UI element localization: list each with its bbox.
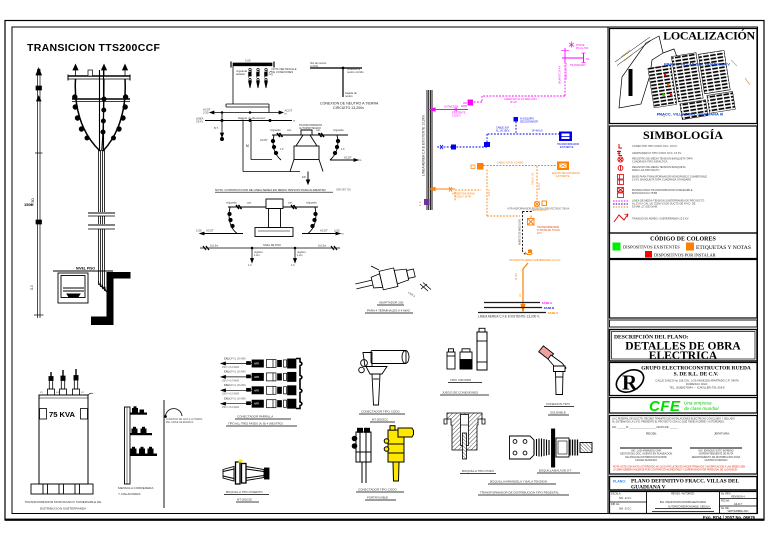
conexion tipo soldable xyxy=(539,346,566,395)
pole cable down-riser bundle xyxy=(88,150,115,291)
svg-text:CFE: CFE xyxy=(649,398,681,415)
codigo orange xyxy=(686,243,694,251)
pole structure: top crossarm xyxy=(68,75,130,81)
cluster2 left insulator chain xyxy=(271,135,281,160)
retenida marker (purple) xyxy=(424,199,430,205)
svg-text:ELECTRICA: ELECTRICA xyxy=(649,350,718,362)
svg-text:BOQUILLA TIPO INSERTO: BOQUILLA TIPO INSERTO xyxy=(226,490,263,494)
simbologia sym7 linea MT subterranea xyxy=(613,201,629,207)
svg-text:CÓDIGO DE COLORES: CÓDIGO DE COLORES xyxy=(650,235,716,243)
svg-text:B.T.: B.T. xyxy=(214,126,219,130)
svg-text:1.0: 1.0 xyxy=(291,263,295,267)
svg-text:neutro: neutro xyxy=(345,94,353,98)
mensula shelf 3 with insulators xyxy=(130,447,157,456)
neutral-to-ground mini diagram xyxy=(310,67,362,97)
svg-text:1500: 1500 xyxy=(24,202,34,207)
svg-text:ARR: ARR xyxy=(254,389,259,392)
svg-text:SIN - E S C: SIN - E S C xyxy=(619,508,632,511)
orange terminal block right xyxy=(557,162,569,171)
svg-text:A TRANSFORMADOR PEDESTAL PROYE: A TRANSFORMADOR PEDESTAL PROYECTADO 75KV… xyxy=(507,208,570,211)
svg-text:ADAPTADOR 200: ADAPTADOR 200 xyxy=(379,301,404,305)
svg-text:TRANSICION: TRANSICION xyxy=(570,64,586,67)
svg-text:AUTORIZO/RESPONSABLE:: AUTORIZO/RESPONSABLE: xyxy=(668,506,700,509)
svg-text:SEPTIEMBRE 2011: SEPTIEMBRE 2011 xyxy=(727,510,749,513)
svg-text:bajante media tension: bajante media tension xyxy=(238,116,266,120)
localizacion colored dots xyxy=(663,74,673,96)
svg-text:CABLE XLP AL 1/0 AWG: CABLE XLP AL 1/0 AWG xyxy=(497,162,524,165)
svg-text:JEFATURA:: JEFATURA: xyxy=(714,432,730,436)
title block divider xyxy=(607,27,609,514)
svg-text:R: R xyxy=(622,371,638,395)
blue tap square xyxy=(514,117,519,122)
simbologia sym8 transicion xyxy=(614,214,628,222)
grupo electroconstructor box xyxy=(610,363,758,396)
magenta transition connector xyxy=(461,100,473,106)
svg-text:CABLE XLP 1/0: CABLE XLP 1/0 xyxy=(565,62,568,80)
svg-text:Exp. RO4 / 2007 No. 06676: Exp. RO4 / 2007 No. 06676 xyxy=(703,515,756,520)
orange feeder into overhead line xyxy=(430,187,455,192)
title table xyxy=(610,492,758,514)
svg-text:TIPO CIM-6000: TIPO CIM-6000 xyxy=(450,378,471,382)
cluster1 fuse cutout B xyxy=(257,68,260,88)
svg-text:13200 V: 13200 V xyxy=(452,115,461,118)
svg-text:cort.: cort. xyxy=(247,202,252,205)
boquilla tipo pozo xyxy=(444,413,485,459)
svg-text:JUEGO DE CONEXIONES: JUEGO DE CONEXIONES xyxy=(442,391,478,395)
simbologia box xyxy=(610,126,758,233)
guide wire detail xyxy=(164,400,182,508)
svg-text:ACOMETIDA: ACOMETIDA xyxy=(444,106,459,109)
svg-text:LA OBRA DEBERA HACERSE POR CON: LA OBRA DEBERA HACERSE POR CONTRATISTA A… xyxy=(613,469,738,472)
svg-text:TIPO ALL TRES FASES (A, B) 4 (: TIPO ALL TRES FASES (A, B) 4 (NEUTRO) xyxy=(228,422,283,426)
blue transformer block xyxy=(559,132,572,142)
svg-text:LINEA AEREA C.F.E EXISTENTE 1: LINEA AEREA C.F.E EXISTENTE 13,200 V. xyxy=(478,315,540,319)
localizacion street marks tan xyxy=(621,50,750,117)
svg-text:DISPOSITIVOS POR INSTALAR: DISPOSITIVOS POR INSTALAR xyxy=(654,253,716,258)
svg-text:CONECTADOR TIPO CODO: CONECTADOR TIPO CODO xyxy=(361,410,400,414)
orange registro symbol xyxy=(534,201,546,207)
left insulator string with jumper cable xyxy=(73,79,100,151)
svg-text:CABLE 1/0: CABLE 1/0 xyxy=(532,173,535,185)
cluster2 primary bus wire xyxy=(272,133,348,137)
svg-text:de clase mundial: de clase mundial xyxy=(684,406,719,411)
svg-text:ARR: ARR xyxy=(254,363,259,366)
simbologia sym4 registro proyecto xyxy=(618,166,623,171)
cluster1 bajante line xyxy=(205,120,292,122)
svg-text:APARTARRAYO TIPO CODO OCC. 15: APARTARRAYO TIPO CODO OCC. 15 KV. xyxy=(632,151,682,155)
orange transformer-to-install symbol xyxy=(528,216,535,226)
svg-text:ING. OMAR ROCHA RODRIGUEZ/CARG: ING. OMAR ROCHA RODRIGUEZ/CARGO xyxy=(660,501,706,504)
right insulator string with jumper cable xyxy=(103,79,128,151)
svg-text:PARA LAS PROYECTO: PARA LAS PROYECTO xyxy=(632,168,660,172)
svg-text:neutro corrido: neutro corrido xyxy=(347,70,364,74)
svg-text:PLANO DEFINITIVO FRACC. VILLAS: PLANO DEFINITIVO FRACC. VILLAS DEL xyxy=(631,479,739,485)
svg-text:SIN - E S C: SIN - E S C xyxy=(619,497,632,500)
svg-text:NOTA: ESTE CONJUNTO AUTORIZADO: NOTA: ESTE CONJUNTO AUTORIZADO NO LE DA … xyxy=(613,466,746,469)
transformer 75 KVA tank xyxy=(39,393,93,484)
simbologia sym2 apartarrayo xyxy=(617,151,622,156)
svg-text:CONECTADOR PARRILLA: CONECTADOR PARRILLA xyxy=(237,415,273,419)
magenta riser drop (dashed) xyxy=(473,62,565,102)
simbologia sym3 registro MT cuadrada xyxy=(618,157,623,162)
svg-text:CIUDAD DURANGO: CIUDAD DURANGO xyxy=(635,459,657,462)
orange riser down to overhead tap xyxy=(521,263,528,311)
svg-text:CONEXION TIPO: CONEXION TIPO xyxy=(546,402,570,406)
cluster3 ground dimension line xyxy=(200,246,340,250)
svg-text:MENSULA CORREDERA: MENSULA CORREDERA xyxy=(118,486,154,490)
mensula shelf 2 with insulators xyxy=(130,427,152,435)
svg-text:53 MM. (2") DE DIAM.: 53 MM. (2") DE DIAM. xyxy=(632,205,658,209)
codigo green xyxy=(613,243,621,251)
svg-text:DURANGO, DGO.: DURANGO, DGO. xyxy=(686,382,708,386)
svg-text:2.50: 2.50 xyxy=(334,229,340,233)
svg-text:CALLE JUNCO No 108 COL. LOS A: CALLE JUNCO No 108 COL. LOS ANGELES APAR… xyxy=(655,379,739,383)
svg-text:CENTRO DURANGO: CENTRO DURANGO xyxy=(705,459,728,462)
svg-text:TRANSICION TTS200CCF: TRANSICION TTS200CCF xyxy=(27,42,160,54)
orange lateral top (dashed) xyxy=(455,166,557,217)
ground level line xyxy=(53,270,113,272)
svg-text:m/guarda: m/guarda xyxy=(226,202,237,205)
plano title box xyxy=(610,477,758,491)
svg-text:MT-200/SCC: MT-200/SCC xyxy=(372,418,388,422)
svg-text:2.50: 2.50 xyxy=(203,111,209,115)
svg-text:CONEXION DE NEUTRO A TIERRA: CONEXION DE NEUTRO A TIERRA xyxy=(320,102,379,106)
empty notes box xyxy=(610,260,758,319)
svg-text:corrido: corrido xyxy=(310,64,319,68)
conectador tipo codo MT-200 xyxy=(359,351,409,406)
svg-text:BOQUILLA/ARANDELA Y BALA TENSI: BOQUILLA/ARANDELA Y BALA TENSION xyxy=(490,480,547,484)
svg-text:PC-12-700: PC-12-700 xyxy=(576,47,589,50)
svg-text:DESCRIPCIÓN DEL PLANO:: DESCRIPCIÓN DEL PLANO: xyxy=(614,333,689,341)
cluster1 ground drop xyxy=(220,113,223,141)
certification box xyxy=(610,416,758,475)
svg-text:m/guarda: m/guarda xyxy=(270,129,281,132)
svg-text:m: m xyxy=(293,120,295,123)
svg-text:FASE A: FASE A xyxy=(542,301,552,305)
cluster3: pedestal transformer schematic xyxy=(228,205,318,209)
svg-text:CEDULA:: CEDULA: xyxy=(700,506,711,509)
svg-text:CUADRADA TIPO ASFALTICA: CUADRADA TIPO ASFALTICA xyxy=(632,159,668,163)
cluster1 fuse cutout A xyxy=(249,68,252,88)
svg-text:EXISTENTE: EXISTENTE xyxy=(556,175,570,178)
svg-text:ACOT: ACOT xyxy=(320,229,328,233)
svg-text:S. DE R.L. DE C.V.: S. DE R.L. DE C.V. xyxy=(674,372,719,378)
R logo xyxy=(613,365,648,396)
center insulator string with jumper cable xyxy=(101,79,106,151)
codigo red xyxy=(645,251,652,258)
svg-text:2x2.5m: 2x2.5m xyxy=(210,245,218,248)
svg-text:XLP AL 1/0 AWG: XLP AL 1/0 AWG xyxy=(229,371,246,374)
svg-text:LINEA AEREA C.F.E EXISTENTE 13: LINEA AEREA C.F.E EXISTENTE 13,2KV. xyxy=(422,114,426,176)
descripcion box xyxy=(610,330,758,362)
svg-text:LOCALIZACIÓN: LOCALIZACIÓN xyxy=(663,29,755,43)
svg-text:AL SISTEMA DE LA C.F.E. PRESEN: AL SISTEMA DE LA C.F.E. PRESENTE EL PROY… xyxy=(612,421,725,424)
svg-text:B.M.T.: B.M.T. xyxy=(488,189,491,196)
cluster1 bracket frame xyxy=(226,66,269,113)
svg-text:TRANSFORMADOR MONOFASICO SUMER: TRANSFORMADOR MONOFASICO SUMERGIBLE DE xyxy=(25,500,102,504)
blue connector blobs xyxy=(440,142,490,150)
svg-text:GUADIANA V: GUADIANA V xyxy=(631,485,666,491)
svg-text:13 KV. BANQUETA TAPA CUADRADA: 13 KV. BANQUETA TAPA CUADRADA STANDARD xyxy=(632,177,691,181)
svg-text:ACOT: ACOT xyxy=(260,138,268,142)
svg-text:ACOT: ACOT xyxy=(344,156,352,160)
svg-text:FRACC. VILLAS DEL GUADIANA V: FRACC. VILLAS DEL GUADIANA V xyxy=(664,62,730,67)
mensula corredera channel xyxy=(125,407,131,484)
svg-text:PARA 4 TERMINALES A 4 AWG: PARA 4 TERMINALES A 4 AWG xyxy=(367,309,411,313)
cluster3 depth drops xyxy=(251,248,297,263)
svg-text:ETIQUETAS Y NOTAS: ETIQUETAS Y NOTAS xyxy=(696,245,751,251)
overhead line bundle (LINEA AEREA CFE 13,2KV) xyxy=(427,90,432,210)
magenta feeder into overhead line xyxy=(430,108,468,112)
svg-text:BOQUILLA/BALA DE 8-T: BOQUILLA/BALA DE 8-T xyxy=(539,469,572,473)
transformer bushings xyxy=(48,369,80,395)
svg-text:JULIO 7: JULIO 7 xyxy=(734,503,743,506)
svg-text:aislador: aislador xyxy=(236,72,245,76)
svg-text:15KV 4 1/0 AWG: 15KV 4 1/0 AWG xyxy=(222,406,239,409)
svg-text:No. REV:: No. REV: xyxy=(721,493,731,496)
svg-text:DIA: ______ M: ______________: DIA: ______ M: ____________________ FECH… xyxy=(612,426,678,429)
svg-text:DISTRIBUCION SUBTERRANEA: DISTRIBUCION SUBTERRANEA xyxy=(40,507,87,511)
CFE box xyxy=(610,398,758,414)
svg-text:NIVEL DE PISO: NIVEL DE PISO xyxy=(263,244,281,247)
svg-text:CIRCUITO 13,200v: CIRCUITO 13,200v xyxy=(333,106,364,110)
svg-text:Y AISLADORES: Y AISLADORES xyxy=(118,492,140,496)
svg-text:1 F: 1 F xyxy=(341,147,345,151)
svg-text:MURETE DE MEDICION: MURETE DE MEDICION xyxy=(520,219,522,245)
cluster1 fuse cutout C xyxy=(265,68,268,88)
parrilla row 2 xyxy=(221,371,296,383)
svg-text:CONECTOR TIPO CODO OCC. 15 KV.: CONECTOR TIPO CODO OCC. 15 KV. xyxy=(632,144,678,148)
cluster2: pole transformer bank schematic xyxy=(240,120,300,172)
tipo CIM-6000 connection set xyxy=(447,328,487,370)
svg-text:m/guarda: m/guarda xyxy=(306,202,317,205)
svg-text:13200 V 3F-4H: 13200 V 3F-4H xyxy=(455,196,471,199)
svg-text:VER DET. EN: VER DET. EN xyxy=(336,189,351,192)
cluster2 right insulator chain xyxy=(330,135,358,161)
mensula shelf 1 with insulator xyxy=(130,406,147,414)
cluster1 acot line 1 xyxy=(210,111,283,114)
parrilla bus bar xyxy=(296,359,302,409)
svg-text:FASE B: FASE B xyxy=(544,306,554,310)
svg-text:1.0: 1.0 xyxy=(248,263,252,267)
svg-text:3F-4H 1/0: 3F-4H 1/0 xyxy=(532,130,543,133)
cluster1: crossarm with fuse cutouts detail xyxy=(231,59,274,68)
svg-text:ESCALA:: ESCALA: xyxy=(611,493,621,496)
svg-text:TRANSICION AEREO- SUBTERRANEA: TRANSICION AEREO- SUBTERRANEA 13,2 KV. xyxy=(632,217,689,221)
svg-text:PLANO:: PLANO: xyxy=(613,480,626,484)
svg-text:1.2m: 1.2m xyxy=(297,253,303,257)
svg-text:1 F: 1 F xyxy=(280,147,284,151)
svg-text:15KV 4 1/0 AWG: 15KV 4 1/0 AWG xyxy=(222,379,239,382)
boquilla bala de 8-T xyxy=(510,429,593,467)
codigo de colores box xyxy=(610,233,758,259)
svg-text:cort.: cort. xyxy=(288,202,293,205)
svg-text:REVISO / AUTORIZO:: REVISO / AUTORIZO: xyxy=(671,493,695,496)
conectador codo yellow portafusible xyxy=(384,426,413,481)
dimension scale bar xyxy=(30,68,44,318)
svg-text:ARR: ARR xyxy=(254,376,259,379)
svg-text:23 T: 23 T xyxy=(537,232,542,235)
svg-text:TRANSFORMADOR DE DISTRIBUCION: TRANSFORMADOR DE DISTRIBUCION TIPO PEDES… xyxy=(480,491,559,495)
parrilla row 1 xyxy=(221,357,296,369)
svg-text:2.00: 2.00 xyxy=(245,59,251,63)
pole top pins and insulators xyxy=(73,65,128,77)
svg-text:MT-200/202: MT-200/202 xyxy=(237,498,252,502)
svg-text:REVISION 4: REVISION 4 xyxy=(731,496,745,499)
cluster2 ground lead xyxy=(306,172,309,185)
simbologia sym6 boveda xyxy=(618,188,624,198)
localizacion block grids xyxy=(647,48,736,124)
svg-text:23 KV: 23 KV xyxy=(196,119,203,123)
svg-text:15KV 4 1/0 AWG: 15KV 4 1/0 AWG xyxy=(222,393,239,396)
svg-text:cort.: cort. xyxy=(287,129,292,132)
svg-text:NOTA: CONSTRUCCION DE LINEA AE: NOTA: CONSTRUCCION DE LINEA AEREA EN MED… xyxy=(215,188,326,192)
svg-text:FRACC. VILLAS DEL GUADIANA III: FRACC. VILLAS DEL GUADIANA III xyxy=(657,112,723,117)
registro box xyxy=(58,273,88,303)
svg-text:Una empresa: Una empresa xyxy=(684,401,712,406)
conectador codo black unit xyxy=(352,428,371,483)
svg-text:M: M xyxy=(246,144,249,148)
cluster3 left chain xyxy=(200,207,243,235)
svg-text:RECIBI:: RECIBI: xyxy=(646,432,657,436)
cluster3 pedestal cabinet xyxy=(255,199,293,237)
localizacion box xyxy=(610,29,758,124)
svg-text:DEL CABLE DE ENERGIA: DEL CABLE DE ENERGIA xyxy=(166,421,194,424)
svg-text:2.50: 2.50 xyxy=(196,229,202,233)
parrilla row 3 xyxy=(221,384,296,396)
svg-text:ARR: ARR xyxy=(254,403,259,406)
orange tap connector xyxy=(471,163,484,170)
svg-text:AUTOPROTEGIDO: AUTOPROTEGIDO xyxy=(299,127,321,130)
svg-text:1.2m: 1.2m xyxy=(254,253,260,257)
pedestal dashed outline (black) xyxy=(523,212,534,255)
second crossarm xyxy=(72,99,130,102)
svg-text:RA: RA xyxy=(586,58,590,61)
svg-text:2x2.5m: 2x2.5m xyxy=(318,245,326,248)
svg-text:BOQUILLA TIPO POZO: BOQUILLA TIPO POZO xyxy=(462,469,495,473)
svg-text:XLP AL 1/0 AWG: XLP AL 1/0 AWG xyxy=(229,357,246,360)
svg-text:TRANSICION AEREO-SUBTERRANEA 1: TRANSICION AEREO-SUBTERRANEA 13,2 KV xyxy=(509,259,561,262)
pole mast double line xyxy=(100,70,104,150)
svg-text:EXISTENTE: EXISTENTE xyxy=(560,146,574,149)
cluster1 labels xyxy=(236,67,297,76)
svg-text:XLP AL 1/0 AWG: XLP AL 1/0 AWG xyxy=(229,384,246,387)
svg-text:AL 1/0 15KV: AL 1/0 15KV xyxy=(496,130,510,133)
svg-text:CONECTADOR TIPO CODO: CONECTADOR TIPO CODO xyxy=(358,488,397,492)
boquilla tipo inserto xyxy=(223,460,269,485)
svg-text:MONOFASICO 75/5B: MONOFASICO 75/5B xyxy=(632,191,657,195)
svg-text:FECHA:: FECHA: xyxy=(721,500,730,503)
svg-text:FASE C: FASE C xyxy=(548,311,558,315)
conduit duct (black) xyxy=(91,272,131,325)
svg-text:3F-4H: 3F-4H xyxy=(510,101,517,104)
svg-text:m/guarda: m/guarda xyxy=(333,129,344,132)
svg-text:15KV 4 1/0 AWG: 15KV 4 1/0 AWG xyxy=(222,366,239,369)
magenta pole symbol top xyxy=(561,42,586,63)
simbologia sym5 base transformador xyxy=(618,175,624,185)
existing overhead line phase wires xyxy=(478,303,546,313)
svg-text:3F-4H: 3F-4H xyxy=(538,183,541,190)
svg-text:DE CONEXIONES: DE CONEXIONES xyxy=(272,70,294,74)
svg-text:ACOT: ACOT xyxy=(206,229,214,233)
transformer base xyxy=(31,484,93,494)
adaptador 200 detail (diagonal) xyxy=(354,264,417,296)
svg-text:SOLDABLE: SOLDABLE xyxy=(550,411,566,415)
empty strip box xyxy=(610,320,758,327)
svg-text:XLP AL 1/0 AWG: XLP AL 1/0 AWG xyxy=(229,398,246,401)
svg-text:BAJANTE 3F-4H: BAJANTE 3F-4H xyxy=(559,66,562,84)
cluster2 transformer tank xyxy=(290,124,323,172)
svg-text:SIMBOLOGÍA: SIMBOLOGÍA xyxy=(643,128,723,142)
svg-text:SECCIONADOR: SECCIONADOR xyxy=(520,121,538,124)
svg-text:CONEXION DE GUIA A LA TIERRA: CONEXION DE GUIA A LA TIERRA xyxy=(166,418,203,421)
svg-text:DIB. EL:: DIB. EL: xyxy=(611,503,620,506)
svg-text:NIVEL PISO: NIVEL PISO xyxy=(76,267,95,271)
cluster3 right chain xyxy=(302,207,340,235)
svg-text:75 KVA: 75 KVA xyxy=(49,410,76,419)
blue lateral (dashed) xyxy=(437,122,563,148)
svg-text:3.0: 3.0 xyxy=(30,285,34,290)
simbologia sym1 conector codo xyxy=(619,144,622,148)
parrilla row 4 xyxy=(221,398,296,410)
svg-text:3F-4H: 3F-4H xyxy=(516,273,518,280)
svg-text:CABLE XLP AL 1/0 AWG 15KV: CABLE XLP AL 1/0 AWG 15KV xyxy=(504,98,537,101)
svg-text:TEL. (618)8170544 --- (CHOLLER: TEL. (618)8170544 --- (CHOLLER) TEL 618-… xyxy=(670,386,725,390)
svg-text:PORTAFUSIBLE: PORTAFUSIBLE xyxy=(367,496,388,500)
orange elbow at murete base xyxy=(525,250,533,255)
svg-text:DISPOSITIVOS EXISTENTES: DISPOSITIVOS EXISTENTES xyxy=(623,245,680,250)
